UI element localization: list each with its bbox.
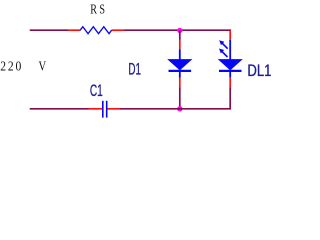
wire top middle from RS to corner xyxy=(125,29,231,31)
wire right branch lower xyxy=(229,88,231,110)
svg-text:V: V xyxy=(39,58,47,74)
LED DL1 xyxy=(219,30,242,88)
diode D1 xyxy=(169,40,192,89)
svg-text:DL1: DL1 xyxy=(247,61,271,80)
wire middle branch upper xyxy=(179,30,181,39)
svg-text:C1: C1 xyxy=(90,81,103,100)
label 220 V source value xyxy=(0,58,46,74)
wire top left from 220V source to resistor RS xyxy=(30,29,69,31)
LED emission arrow 1 xyxy=(219,40,228,49)
svg-text:RS: RS xyxy=(90,1,105,17)
wire middle branch lower xyxy=(179,88,181,109)
capacitor C1 xyxy=(88,101,119,118)
node junction top xyxy=(177,28,182,33)
resistor RS xyxy=(68,27,125,34)
svg-text:220: 220 xyxy=(0,58,21,73)
LED emission arrow 2 xyxy=(219,49,228,58)
wire bottom left from C1 to 220V source xyxy=(30,108,89,110)
node junction bottom xyxy=(177,106,182,111)
svg-text:D1: D1 xyxy=(128,59,141,78)
wire bottom right from corner to C1 xyxy=(120,108,231,110)
wire top right corner down xyxy=(229,29,231,31)
